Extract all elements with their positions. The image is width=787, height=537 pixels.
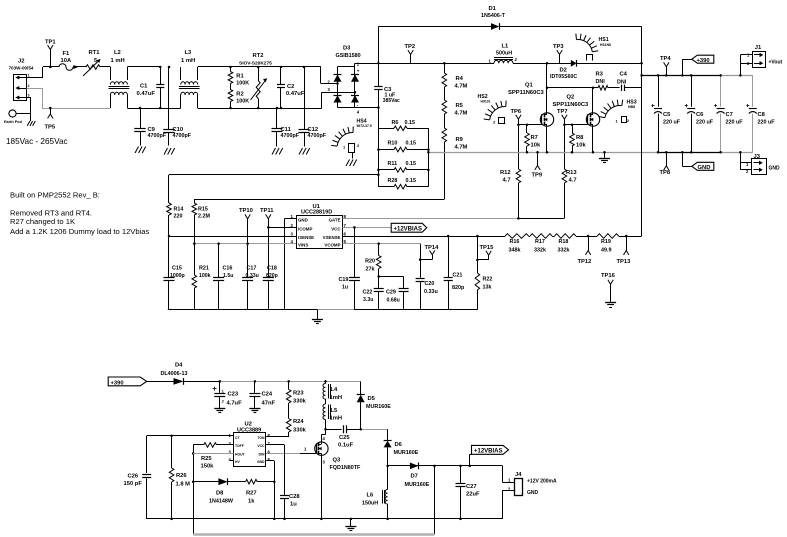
svg-text:4.7M: 4.7M	[455, 111, 468, 117]
svg-text:Q1: Q1	[525, 83, 534, 89]
svg-text:385Vac: 385Vac	[383, 98, 400, 104]
svg-text:3.3u: 3.3u	[363, 297, 373, 303]
svg-text:4700pF: 4700pF	[281, 133, 300, 139]
wire J4 pin2	[502, 490, 514, 519]
wire sense left rail	[378, 128, 380, 186]
node bridge junctions	[336, 82, 379, 109]
svg-text:R12: R12	[500, 170, 511, 176]
svg-text:+: +	[357, 68, 360, 73]
svg-text:D7: D7	[411, 474, 418, 480]
svg-text:C20: C20	[425, 281, 435, 287]
svg-text:MUR160E: MUR160E	[405, 482, 430, 488]
wire D5 to D6	[359, 428, 387, 431]
svg-text:1u: 1u	[342, 285, 348, 291]
wire top input	[43, 66, 59, 68]
ground C23	[214, 409, 225, 413]
ground C10	[164, 148, 175, 155]
resistor R18	[552, 234, 576, 254]
capacitor C18	[263, 227, 278, 309]
svg-text:MUR160E: MUR160E	[366, 404, 391, 410]
svg-text:L5: L5	[331, 408, 339, 414]
resistor R11	[378, 161, 428, 172]
earth pod J5	[4, 110, 31, 124]
svg-text:R13: R13	[566, 170, 577, 176]
wire J1	[739, 55, 752, 77]
wire output node	[641, 27, 643, 237]
svg-text:R14: R14	[174, 206, 184, 212]
resistor R27	[246, 479, 275, 504]
note input range	[6, 137, 68, 146]
thermistor RT1	[83, 50, 101, 76]
svg-text:Built on PMP2552 Rev_ B:: Built on PMP2552 Rev_ B:	[10, 191, 100, 200]
svg-text:150uH: 150uH	[362, 501, 378, 507]
svg-text:4.7: 4.7	[569, 177, 577, 183]
svg-text:DL4006-13: DL4006-13	[161, 371, 188, 377]
resistor R28	[378, 178, 428, 189]
capacitor C29	[386, 277, 409, 310]
svg-text:TP12: TP12	[578, 259, 592, 265]
wire L3 to bridge bottom	[198, 108, 322, 110]
svg-text:R24: R24	[293, 419, 304, 425]
svg-text:100k: 100k	[199, 273, 211, 279]
svg-text:1N4148W: 1N4148W	[209, 499, 234, 505]
svg-text:100K: 100K	[236, 81, 249, 87]
svg-text:TP7: TP7	[557, 109, 568, 115]
resistor R6	[378, 120, 428, 131]
svg-text:HOUT: HOUT	[235, 452, 246, 456]
capacitor C6	[685, 75, 714, 152]
svg-text:UCC28819D: UCC28819D	[301, 210, 332, 216]
IC U2	[229, 421, 271, 466]
svg-text:TP16: TP16	[601, 273, 616, 279]
resistor R15	[192, 199, 210, 243]
svg-text:4.7M: 4.7M	[455, 145, 468, 151]
svg-text:Removed RT3 and RT4.: Removed RT3 and RT4.	[10, 209, 92, 218]
wire U2 GND	[266, 461, 275, 519]
svg-text:GATE: GATE	[329, 218, 341, 223]
capacitor C17	[242, 244, 259, 310]
svg-text:10k: 10k	[576, 143, 586, 149]
svg-text:D6: D6	[395, 442, 403, 448]
svg-text:1u: 1u	[290, 502, 297, 508]
resistor R23	[286, 381, 306, 418]
diode D2	[550, 60, 642, 80]
svg-text:0.15: 0.15	[406, 141, 417, 147]
svg-text:TP14: TP14	[425, 245, 440, 251]
svg-text:R26: R26	[176, 473, 187, 479]
svg-text:VCC: VCC	[331, 226, 341, 231]
heatsink HS3	[599, 100, 637, 124]
resistor R16	[505, 234, 528, 254]
svg-text:1: 1	[28, 74, 30, 78]
choke L3	[179, 50, 200, 108]
svg-text:220 uF: 220 uF	[663, 120, 681, 126]
svg-text:J1: J1	[755, 45, 762, 51]
capacitor C20	[416, 260, 438, 310]
resistor R10	[378, 141, 428, 152]
svg-text:ICOMP: ICOMP	[298, 226, 312, 231]
wire VSENSE line	[342, 235, 505, 238]
resistor R26	[169, 436, 190, 519]
svg-text:R8: R8	[576, 135, 584, 141]
resistor R20	[365, 244, 381, 277]
svg-text:L3: L3	[185, 50, 193, 56]
svg-text:TP15: TP15	[480, 245, 495, 251]
resistor R7	[525, 125, 541, 153]
wire sense right rail	[428, 128, 430, 186]
wire Q1 source	[546, 126, 548, 152]
wire U2 TON	[266, 432, 289, 437]
svg-text:R27: R27	[246, 491, 257, 497]
svg-text:C1: C1	[140, 84, 148, 90]
wire RT1 to L2	[100, 66, 110, 68]
wire C22 C29 top	[377, 275, 403, 278]
wire Q3 gate	[266, 453, 316, 455]
wire snubber	[547, 87, 598, 89]
svg-text:500uH: 500uH	[496, 51, 512, 57]
wire J2 pin2 gray	[27, 88, 111, 109]
svg-text:HS1: HS1	[599, 37, 609, 43]
ground earth	[27, 121, 35, 126]
svg-text:0.33u: 0.33u	[424, 289, 438, 295]
capacitor C22	[363, 277, 384, 310]
wire ctl gnd bus	[168, 309, 478, 311]
wire U2 HOUT gray	[193, 453, 233, 455]
svg-text:0.47uF: 0.47uF	[137, 91, 156, 97]
test point TP8	[660, 151, 671, 176]
ground U1	[312, 310, 323, 324]
svg-text:0.1uF: 0.1uF	[338, 443, 354, 449]
svg-text:330k: 330k	[293, 427, 307, 433]
svg-text:F1: F1	[63, 51, 71, 57]
capacitor C5	[652, 75, 681, 152]
svg-text:C8: C8	[758, 112, 766, 118]
svg-text:1mH: 1mH	[330, 395, 343, 401]
bridge D3 label	[336, 46, 361, 60]
connector J4	[508, 472, 557, 496]
svg-text:J2: J2	[18, 59, 24, 65]
test point TP15	[476, 245, 494, 261]
svg-text:4.7: 4.7	[503, 177, 511, 183]
capacitor C15	[164, 236, 185, 310]
svg-text:2: 2	[28, 84, 30, 88]
bridge D3	[321, 61, 379, 114]
fuse F1	[59, 51, 73, 70]
svg-text:R16: R16	[510, 239, 520, 245]
svg-text:VCOMP: VCOMP	[324, 243, 340, 248]
node drain junction	[546, 87, 595, 90]
svg-text:0.68u: 0.68u	[387, 298, 400, 304]
wire sense bus gray	[428, 152, 752, 154]
svg-text:0.33u: 0.33u	[246, 273, 259, 279]
svg-text:R25: R25	[201, 456, 212, 462]
svg-text:FQD1N80TF: FQD1N80TF	[330, 465, 362, 471]
svg-text:HV: HV	[235, 460, 240, 464]
capacitor C2	[277, 67, 305, 108]
wire ISENSE	[168, 235, 296, 238]
svg-text:GND: GND	[698, 165, 711, 171]
svg-text:150 pF: 150 pF	[124, 481, 143, 487]
svg-text:R19: R19	[601, 239, 611, 245]
svg-text:R22: R22	[483, 277, 493, 283]
svg-text:D4: D4	[175, 363, 183, 369]
wire switch column	[192, 445, 195, 534]
net label +390 out	[681, 55, 714, 76]
connector J2	[9, 59, 34, 101]
svg-text:C26: C26	[128, 474, 139, 480]
svg-text:RT1: RT1	[89, 50, 101, 56]
wire divider mid	[576, 235, 597, 238]
capacitor C1	[137, 67, 165, 108]
svg-text:220 uF: 220 uF	[696, 120, 714, 126]
svg-text:4.7uF: 4.7uF	[227, 401, 243, 407]
diode D7	[405, 463, 430, 489]
svg-text:0.15: 0.15	[405, 120, 416, 126]
wire bias rail gray	[219, 380, 361, 383]
svg-text:D3: D3	[343, 46, 351, 52]
net label +12VBIAS bot	[470, 445, 509, 466]
resistor R13	[562, 125, 577, 219]
svg-text:C7: C7	[726, 112, 733, 118]
svg-text:C2: C2	[287, 84, 294, 90]
resistor R21	[192, 244, 211, 310]
svg-text:VINS: VINS	[298, 243, 308, 248]
svg-text:+390: +390	[111, 380, 124, 386]
resistor R17	[529, 234, 553, 254]
svg-text:GND: GND	[527, 490, 539, 496]
resistor R19	[597, 234, 618, 254]
resistor R25	[193, 443, 233, 470]
ground C9	[135, 147, 146, 154]
svg-text:C5: C5	[663, 112, 671, 118]
node cap bank junctions	[640, 74, 722, 153]
svg-text:4700pF: 4700pF	[308, 133, 327, 139]
svg-text:L4: L4	[331, 387, 339, 393]
svg-text:4700pF: 4700pF	[173, 133, 192, 139]
wire VINS top link	[194, 199, 444, 201]
svg-text:RT2: RT2	[253, 53, 264, 59]
svg-text:332k: 332k	[558, 248, 570, 254]
choke L2	[109, 50, 130, 108]
capacitor C24	[249, 381, 275, 408]
capacitor C9	[134, 108, 166, 146]
capacitor C27	[456, 466, 480, 519]
svg-text:GSIB1580: GSIB1580	[336, 53, 361, 59]
wire U2 VCC	[266, 445, 284, 496]
note built on	[10, 191, 100, 200]
wire GATE gray	[342, 218, 564, 220]
svg-text:R9: R9	[456, 137, 464, 143]
svg-text:ISENSE: ISENSE	[298, 235, 314, 240]
test point TP11	[260, 208, 274, 227]
svg-text:C22: C22	[363, 290, 373, 296]
wire U1 GND pin1	[285, 219, 297, 310]
wire 12V line	[386, 465, 502, 468]
IC U1	[291, 204, 347, 249]
wire U2 CT line	[147, 435, 234, 438]
svg-text:L1: L1	[502, 44, 510, 50]
wire divider right	[619, 235, 642, 238]
svg-text:+Vout: +Vout	[769, 59, 783, 65]
svg-text:185Vac - 265Vac: 185Vac - 265Vac	[6, 137, 68, 146]
svg-text:R20: R20	[365, 258, 375, 264]
inductor L4	[323, 381, 342, 400]
svg-text:C15: C15	[172, 266, 182, 272]
svg-text:R11: R11	[388, 161, 398, 167]
resistor R4	[442, 63, 468, 100]
wire VINS gray	[193, 242, 296, 245]
capacitor C10	[163, 67, 191, 146]
svg-text:TON: TON	[257, 436, 265, 440]
svg-text:820p: 820p	[266, 273, 278, 279]
wire ICOMP	[267, 226, 296, 229]
resistor R5	[442, 100, 468, 128]
wire Q2 drain	[592, 88, 594, 113]
svg-text:C4: C4	[620, 71, 628, 77]
svg-text:R18: R18	[559, 239, 569, 245]
diode D8	[193, 478, 245, 504]
node bus junctions	[526, 151, 595, 154]
test point TP16	[601, 273, 616, 303]
wire J4 pin1	[502, 466, 514, 483]
svg-text:2.2M: 2.2M	[198, 213, 210, 219]
svg-text:R21: R21	[199, 266, 209, 272]
capacitor C28	[280, 494, 300, 519]
note removed	[10, 209, 92, 218]
svg-text:1 mH: 1 mH	[111, 58, 125, 64]
svg-text:R7: R7	[531, 135, 538, 141]
inductor L6	[362, 466, 388, 519]
resistor R1	[228, 67, 249, 87]
svg-text:C29: C29	[386, 290, 396, 296]
node gate wire junctions	[517, 124, 573, 220]
capacitor C8	[746, 75, 775, 152]
svg-text:C23: C23	[228, 391, 239, 397]
wire VCC gray	[342, 227, 391, 229]
diode D1	[378, 6, 641, 30]
wire F1 to RT1	[73, 65, 86, 69]
test point TP9	[532, 152, 543, 178]
svg-text:SIOV-S20K275: SIOV-S20K275	[239, 60, 272, 66]
capacitor C11	[272, 108, 300, 147]
svg-text:MUR160E: MUR160E	[394, 450, 419, 456]
note r27	[10, 217, 75, 226]
capacitor C4	[617, 71, 642, 91]
svg-text:D5: D5	[368, 396, 376, 402]
svg-text:4700pF: 4700pF	[148, 133, 167, 139]
svg-text:1mH: 1mH	[330, 416, 343, 422]
svg-text:R15: R15	[198, 206, 208, 212]
test point TP4	[660, 56, 671, 75]
ground C12	[299, 148, 310, 155]
test point TP10	[239, 208, 253, 244]
svg-text:TP3: TP3	[553, 44, 564, 50]
net label +12VBIAS top	[391, 223, 427, 232]
ground C11	[272, 148, 283, 155]
svg-text:U2: U2	[245, 421, 252, 427]
ground C24	[249, 409, 260, 413]
svg-text:1.8 M: 1.8 M	[176, 482, 191, 488]
test point TP3	[553, 44, 564, 64]
svg-text:TP2: TP2	[405, 44, 416, 50]
svg-text:Earth Pod: Earth Pod	[4, 120, 23, 124]
svg-text:C27: C27	[466, 484, 477, 490]
note dummy load	[10, 227, 150, 236]
resistor R3	[596, 71, 620, 90]
svg-text:10k: 10k	[531, 143, 541, 149]
svg-text:22uF: 22uF	[466, 492, 480, 498]
svg-text:GND: GND	[257, 460, 265, 464]
capacitor C19	[339, 226, 360, 309]
svg-text:D1: D1	[489, 6, 497, 12]
wire bias gnd bus	[147, 518, 503, 520]
wire VCOMP gray	[342, 242, 420, 259]
wire gray return rail	[193, 533, 434, 535]
wire switch node to C25	[326, 429, 342, 431]
svg-text:VCC: VCC	[257, 444, 265, 448]
svg-text:C16: C16	[223, 266, 233, 272]
wire D4 to C23	[183, 381, 219, 383]
resistor R24	[286, 419, 306, 438]
wire cap bank top	[642, 75, 753, 77]
svg-text:L6: L6	[367, 493, 375, 499]
wire U2 HV stub	[230, 460, 234, 462]
svg-text:SPP11N60C3: SPP11N60C3	[508, 90, 545, 96]
resistor R14	[167, 203, 184, 236]
svg-text:0.15: 0.15	[406, 161, 417, 167]
svg-text:TOFF: TOFF	[235, 444, 244, 448]
svg-text:100K: 100K	[236, 99, 249, 105]
svg-text:Q3: Q3	[333, 458, 342, 464]
svg-text:1k: 1k	[248, 499, 255, 505]
svg-text:DNI: DNI	[596, 79, 606, 85]
svg-text:R3: R3	[596, 71, 604, 77]
resistor R8	[570, 125, 587, 153]
svg-text:0.47uF: 0.47uF	[286, 91, 305, 97]
node rail junctions	[377, 62, 643, 65]
svg-text:C28: C28	[289, 494, 300, 500]
wire L5 to Q3	[321, 420, 326, 442]
svg-text:0.15: 0.15	[406, 178, 417, 184]
svg-text:10A: 10A	[61, 58, 72, 64]
svg-text:27k: 27k	[366, 266, 375, 272]
test point TP14	[419, 245, 439, 261]
svg-text:R23: R23	[293, 391, 304, 397]
connector J3	[746, 154, 780, 175]
wire J3	[739, 151, 751, 170]
inductor L5	[323, 399, 342, 422]
wire Q3 source	[321, 455, 323, 519]
svg-text:HS1N8: HS1N8	[600, 43, 611, 47]
svg-text:49.9: 49.9	[601, 248, 612, 254]
test point TP12	[578, 236, 592, 265]
svg-text:332k: 332k	[534, 248, 546, 254]
svg-text:703W-00/54: 703W-00/54	[9, 66, 34, 71]
capacitor C26	[124, 436, 152, 519]
capacitor C23	[213, 381, 243, 408]
net label GND out	[681, 151, 714, 171]
test point TP5	[45, 108, 56, 131]
svg-text:C18: C18	[267, 266, 277, 272]
test point TP13	[617, 236, 632, 265]
svg-text:+12VBIAS: +12VBIAS	[474, 448, 503, 454]
wire HV rail	[378, 63, 570, 65]
svg-text:4.7M: 4.7M	[455, 84, 468, 90]
ground bias	[345, 519, 356, 531]
svg-text:330k: 330k	[293, 399, 307, 405]
svg-text:R1: R1	[236, 74, 244, 80]
ground PGND	[599, 151, 610, 162]
